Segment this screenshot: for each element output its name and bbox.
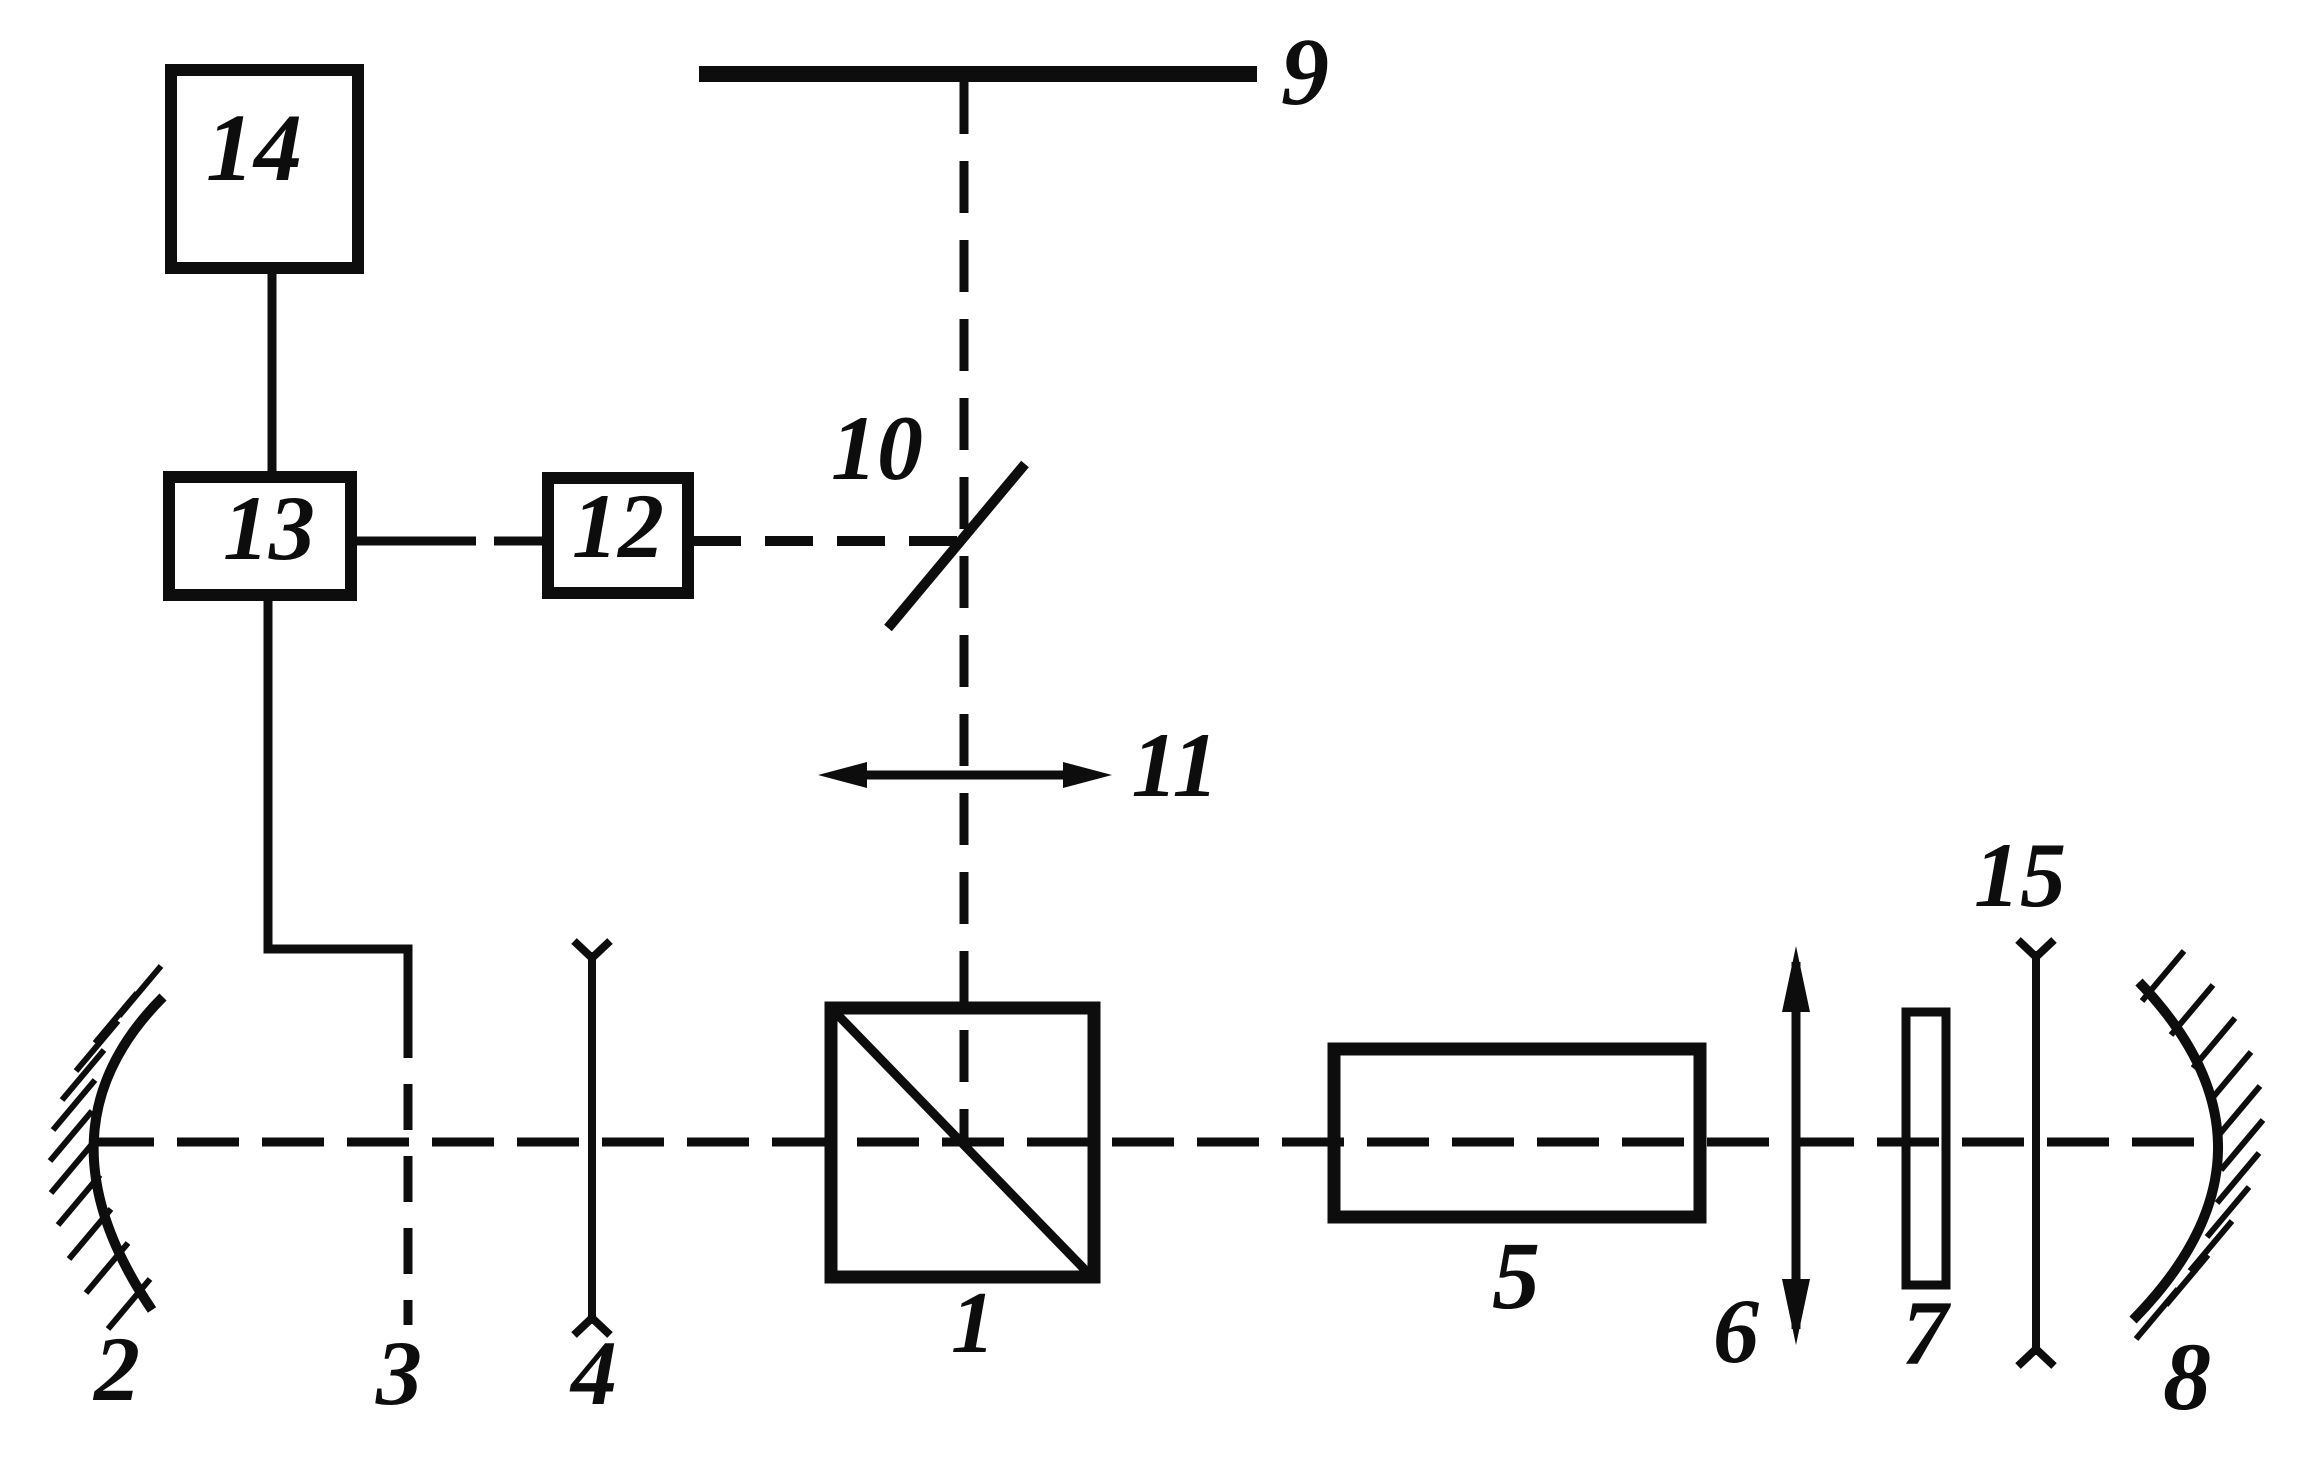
aperture 15 [2018, 940, 2054, 1366]
lens 4 [574, 941, 610, 1335]
svg-text:12: 12 [572, 475, 664, 577]
lens 11 [818, 762, 1112, 788]
wire 14 to 13 [268, 269, 277, 473]
cube 1 diagonal [833, 1010, 1092, 1277]
svg-text:5: 5 [1492, 1222, 1540, 1329]
cube 1 [831, 1008, 1094, 1277]
mirror 2 [94, 997, 163, 1310]
box 12 [548, 478, 688, 593]
mirror 8 hatching [2136, 951, 2263, 1339]
box 14 [171, 70, 358, 268]
svg-text:11: 11 [1132, 714, 1219, 816]
wire vertical beam from mirror 9 to cube 1 [960, 82, 969, 1140]
svg-text:15: 15 [1974, 824, 2066, 926]
lens 6 [1782, 946, 1810, 1345]
svg-text:1: 1 [951, 1275, 995, 1372]
wire 12 to beamsplitter 10 [693, 536, 965, 546]
mirror 2 hatching [50, 966, 161, 1329]
wire 13 to 12 [356, 537, 543, 546]
beamsplitter 10 [888, 464, 1025, 628]
svg-text:7: 7 [1902, 1282, 1952, 1384]
box 13 [169, 477, 351, 595]
etalon 7 [1906, 1012, 1946, 1285]
svg-text:3: 3 [375, 1322, 422, 1424]
svg-text:2: 2 [92, 1318, 140, 1420]
svg-text:4: 4 [569, 1322, 617, 1424]
svg-text:10: 10 [831, 397, 923, 499]
modulator 3 dashed [404, 1012, 413, 1325]
svg-text:8: 8 [2163, 1323, 2211, 1430]
svg-text:6: 6 [1713, 1280, 1759, 1382]
svg-text:9: 9 [1281, 18, 1329, 125]
svg-text:14: 14 [206, 94, 302, 201]
svg-text:13: 13 [223, 477, 315, 579]
mirror 9 [699, 66, 1257, 82]
optical axis [92, 1138, 2216, 1147]
wire 13 down [268, 600, 408, 1012]
mirror 8 [2133, 982, 2218, 1320]
laser rod 5 [1334, 1049, 1700, 1217]
